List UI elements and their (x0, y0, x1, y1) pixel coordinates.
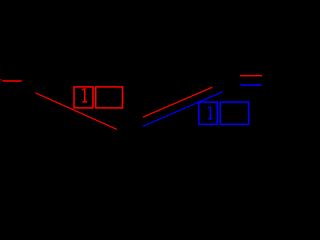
linked-list box-and-pointer diagram on black background (0, 0, 262, 144)
wire: red descending diagonal (35, 93, 117, 130)
value label 1 (red) (82, 88, 87, 102)
wire: red horizontal segment to right edge (240, 75, 262, 77)
wire: blue horizontal segment to right edge (241, 84, 262, 86)
node B1: blue list cell (head field) (199, 102, 218, 124)
node R2: red list cell (tail pointer field) (96, 87, 123, 108)
node R1: red list cell (head field) (74, 87, 93, 108)
node junction dot (blue) (240, 83, 241, 86)
value label 1 (blue) (208, 107, 213, 119)
wire: red stub from left edge (0, 79, 2, 82)
node B2: blue list cell (tail pointer field) (220, 102, 249, 124)
wire: red horizontal segment top-left (2, 80, 22, 82)
wire: blue ascending diagonal (143, 92, 223, 127)
wire: red ascending diagonal (143, 87, 213, 117)
